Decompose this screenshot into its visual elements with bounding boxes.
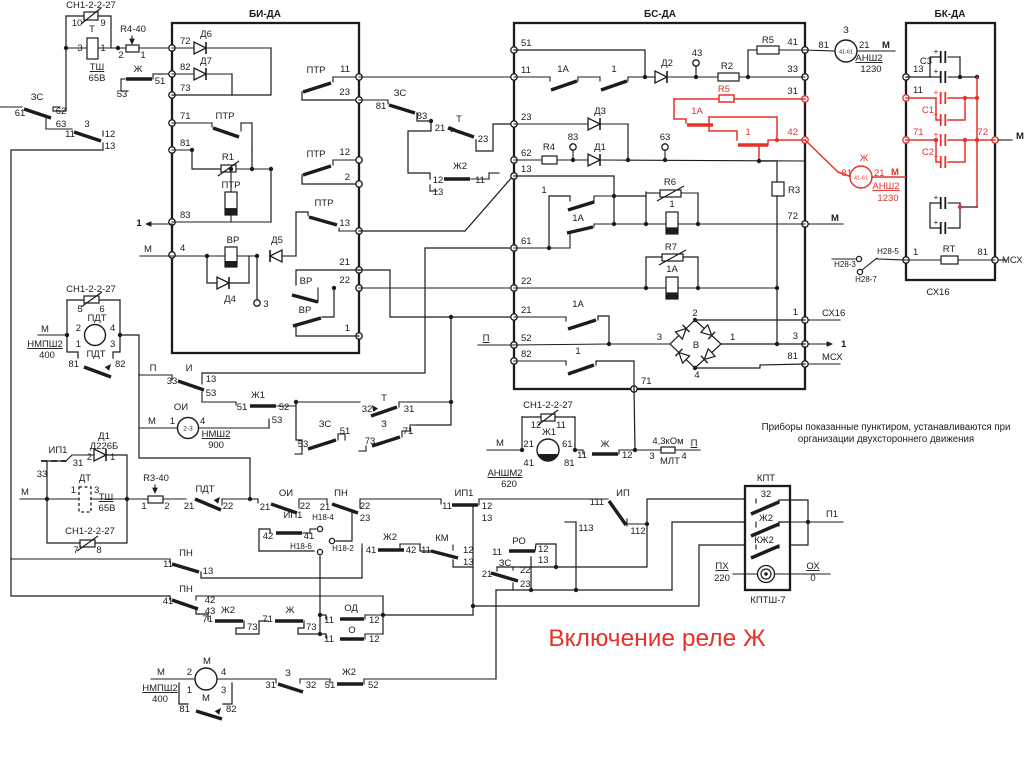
contact PTR (71) [172,111,252,137]
svg-text:23: 23 [520,579,531,590]
node P1 [806,520,810,524]
wire OD right rail [382,596,384,634]
node DT-3 [125,497,129,501]
terminal 43 [692,48,703,77]
svg-text:22: 22 [223,501,234,512]
red node C1r [963,96,967,100]
wire 13 diagonal [359,230,465,232]
contact T 21-23 [435,114,514,151]
svg-text:73: 73 [306,622,317,633]
contact ZS 61-62-63 [0,92,66,130]
lamp PX [714,561,830,584]
varistor CH1-2-2-27 PDT [66,284,120,324]
contact IP1 42-41 [259,510,334,555]
svg-text:53: 53 [298,439,309,450]
svg-text:Д5: Д5 [271,235,283,246]
svg-text:53: 53 [117,89,128,100]
capacitor C3 group [906,47,977,83]
svg-text:Д2: Д2 [661,58,673,69]
node R1-right [269,167,273,171]
svg-text:ТШ: ТШ [99,492,114,503]
svg-text:71: 71 [262,614,273,625]
svg-text:ЗС: ЗС [31,92,44,103]
svg-text:72: 72 [787,211,798,222]
svg-text:М: М [41,324,49,335]
svg-text:3: 3 [649,451,654,462]
svg-text:Н18-2: Н18-2 [332,544,354,553]
contact T 32-31 [362,393,451,416]
diode D1 (62 line) [588,142,805,166]
wire 61 over to I-contact [202,248,514,373]
node Zh1-52 [294,400,298,404]
wire 606 line [473,545,745,606]
terminal BK-13 [903,74,909,80]
wire OD to 473 [383,614,473,616]
note text dashed devices [762,422,1011,445]
svg-text:БИ-ДА: БИ-ДА [249,9,281,20]
svg-text:41-61: 41-61 [854,176,868,182]
svg-text:3: 3 [110,339,115,350]
diode D7 [172,56,232,80]
svg-text:12: 12 [531,420,542,431]
contact IP1 11-12-13 [441,488,608,615]
terminal 13r [356,228,362,234]
svg-text:М: М [1016,131,1024,142]
red wire to relay Zh [805,140,838,172]
resistor R2 [696,61,805,81]
svg-text:R4-40: R4-40 [120,24,146,35]
svg-text:2: 2 [76,323,81,334]
svg-text:11: 11 [475,175,485,186]
svg-text:Д4: Д4 [224,294,236,305]
node Zh1-l [520,448,524,452]
svg-text:61: 61 [521,236,532,247]
terminal BS-51 [511,47,517,53]
node coil-top [229,167,233,171]
svg-text:1А: 1А [572,213,584,224]
wire left rail bottom [11,559,170,596]
svg-text:3: 3 [793,331,798,342]
svg-text:R3-40: R3-40 [143,473,169,484]
svg-text:111: 111 [590,497,604,508]
svg-text:+: + [934,152,939,161]
svg-text:С2: С2 [922,147,934,158]
svg-text:51: 51 [237,402,248,413]
contact Zh 11-12 [575,439,635,461]
contact I 33-13 [139,363,216,402]
contact 3 11-12-13 [46,119,115,152]
svg-text:3: 3 [657,332,662,343]
node Zh-12 [633,448,637,452]
red node C4 [958,205,962,209]
svg-text:4: 4 [694,370,699,381]
svg-text:12: 12 [482,501,493,512]
svg-text:М: М [21,487,29,498]
node VR22 [332,286,336,290]
svg-text:41: 41 [523,458,534,469]
svg-text:2: 2 [164,501,169,512]
varistor CH1-2-2-27 (top) [66,0,116,29]
svg-text:112: 112 [630,526,645,537]
svg-text:33: 33 [787,64,798,75]
svg-text:ПДТ: ПДТ [195,484,214,495]
svg-text:1А: 1А [572,299,584,310]
node 113-590 [574,588,578,592]
svg-text:23: 23 [339,87,350,98]
svg-text:З: З [381,419,387,430]
contact 1A (21 line) [514,299,609,344]
svg-text:Ж1: Ж1 [251,390,265,401]
terminal BK-1 [903,257,909,263]
node T31 [449,400,453,404]
svg-text:З: З [285,668,291,679]
varistor CH1 lower [47,499,127,556]
contact KPT Zh2 [751,513,779,536]
svg-text:32: 32 [306,680,317,691]
svg-text:ПДТ: ПДТ [87,313,106,324]
contact KPT KZh2 [751,535,779,558]
svg-text:11: 11 [324,615,334,626]
wire Zh-51 to terminal 82 [160,73,172,75]
svg-text:СХ16: СХ16 [926,287,949,298]
wire 590 up to KPT Zh2 [672,522,745,590]
red node C1x [975,96,979,100]
terminal 2r [356,181,362,187]
node VR-right [255,254,259,258]
node VR-left [205,254,209,258]
svg-text:52: 52 [521,333,532,344]
svg-text:Н18-4: Н18-4 [312,513,334,522]
svg-text:83: 83 [417,111,428,122]
coil VR [172,235,257,267]
svg-text:72: 72 [977,127,988,138]
svg-text:3: 3 [84,119,89,130]
svg-text:М: М [157,667,165,678]
svg-text:13: 13 [538,555,549,566]
svg-text:65В: 65В [99,503,116,514]
svg-text:71: 71 [202,614,213,625]
wire 22-22 [359,287,514,289]
terminal 4 [169,252,175,258]
wire zs23 line 590 [496,589,672,591]
svg-text:Ж2: Ж2 [221,605,235,616]
svg-text:1А: 1А [557,64,569,75]
svg-text:организации двухстороннего дви: организации двухстороннего движения [798,434,974,445]
svg-text:ОД: ОД [344,603,358,614]
svg-text:113: 113 [578,523,593,534]
svg-text:11: 11 [521,65,531,76]
resistor R7 loop [646,242,698,288]
node 43 [694,75,698,79]
node R1-left [250,167,254,171]
varistor CH1 Zh1 [522,400,575,431]
svg-text:3: 3 [221,685,226,696]
svg-text:Ж: Ж [860,153,869,163]
svg-text:11: 11 [340,64,350,75]
svg-text:53: 53 [206,388,217,399]
node OD-12 [381,613,385,617]
svg-text:1: 1 [541,185,546,196]
contact N28 [832,247,906,284]
svg-text:220: 220 [714,573,730,584]
capacitor C4 group [930,193,977,234]
svg-text:22: 22 [520,565,531,576]
svg-text:63: 63 [660,132,671,143]
node C3x [975,75,979,79]
svg-text:+: + [934,67,939,76]
svg-text:В: В [693,340,699,351]
svg-text:82: 82 [521,349,532,360]
svg-text:2: 2 [692,308,697,319]
contact PTR 11-23 [302,65,359,100]
block BI-DA box [172,9,359,353]
svg-text:11: 11 [324,634,334,645]
contact Z 31-32 [265,668,330,692]
svg-text:13: 13 [206,374,217,385]
wire 71 down to Zh12 [634,389,635,450]
diode D2 [645,58,696,83]
svg-text:31: 31 [787,86,798,97]
terminal BS-23 [511,121,517,127]
wire Zh2-41 down [361,549,363,578]
svg-text:83: 83 [568,132,579,143]
svg-text:11: 11 [556,420,566,431]
terminal 3 below VR [254,256,269,310]
svg-text:1: 1 [345,323,350,334]
svg-text:71: 71 [180,111,191,122]
node 83i [571,158,575,162]
svg-text:АНШ2: АНШ2 [872,181,899,192]
svg-text:СН1-2-2-27: СН1-2-2-27 [65,526,115,537]
terminal BS-3 [802,341,808,347]
svg-text:73: 73 [180,83,191,94]
terminal BS-62 [511,157,517,163]
resistor RT [906,244,995,264]
svg-text:КЖ2: КЖ2 [754,535,774,546]
contact 1 (82 line) [514,346,634,389]
svg-text:52: 52 [368,680,379,691]
svg-text:21: 21 [859,40,870,51]
svg-text:ОИ: ОИ [279,488,293,499]
relay Z (ANSh2 1230) [805,25,895,75]
svg-text:1: 1 [76,339,81,350]
svg-text:Н28-7: Н28-7 [855,275,877,284]
node D2-left [643,75,647,79]
terminal BS-1 [802,317,808,323]
svg-text:1: 1 [140,50,145,61]
svg-text:М: М [148,416,156,427]
svg-text:4: 4 [200,416,205,427]
terminal BS-13 [511,173,517,179]
svg-text:Ж2: Ж2 [383,532,397,543]
svg-text:13: 13 [105,141,116,152]
terminal 63 [660,132,671,160]
node red-tap [757,159,761,163]
svg-text:Приборы показанные пунктиром,: Приборы показанные пунктиром, устанавлив… [762,422,1011,433]
svg-text:81: 81 [564,458,575,469]
terminal 12r [356,157,362,163]
svg-text:Ж: Ж [601,439,610,450]
wire KPT right loops [779,500,843,548]
svg-text:П: П [483,333,490,344]
svg-text:13: 13 [203,566,214,577]
wire 13i down to R6 line [613,196,615,224]
red rail in BK-DA [976,77,978,207]
wire bridge-right to 3 [721,343,805,345]
svg-text:51: 51 [521,38,532,49]
arrow 1 at 3 [808,343,828,345]
resistor R3-40 [141,473,186,512]
bridge rectifier V [657,308,736,381]
node R3-3 [775,342,779,346]
svg-text:ТШ: ТШ [90,62,105,73]
svg-text:ПТР: ПТР [315,198,334,209]
contact VR lower [293,288,359,336]
terminal 22r [356,285,362,291]
wire varistor loop to TSh [66,16,111,48]
relay Zh1 (ANShM2 620) [487,417,575,490]
svg-text:71: 71 [641,376,652,387]
svg-text:З: З [843,25,849,36]
svg-text:R1: R1 [222,152,234,163]
node TSh-1 [116,46,120,50]
svg-text:81: 81 [179,704,190,715]
terminal BS-82 [511,358,517,364]
svg-text:РО: РО [512,536,526,547]
wire P bus to OI contact [250,498,258,500]
svg-text:Включение реле Ж: Включение реле Ж [548,625,766,652]
svg-text:23: 23 [521,112,532,123]
contact PTR 12-2 [302,149,359,184]
wire D6 down to 73 line [232,48,271,95]
svg-text:1А: 1А [691,106,703,117]
svg-text:+: + [934,47,939,56]
wire 11-11 [359,76,514,78]
svg-text:2-3: 2-3 [183,426,193,433]
svg-text:41: 41 [366,545,377,556]
terminal 71 [169,120,175,126]
wire M bus ДТ [20,487,47,499]
wire 81 line [172,149,192,151]
svg-text:72: 72 [180,36,191,47]
terminal 73 [169,92,175,98]
node C3r [958,75,962,79]
svg-text:23: 23 [478,134,489,145]
svg-text:21: 21 [320,502,331,513]
wire P rail down to OI box [139,375,250,499]
wire PDT-4 to rail [120,335,139,375]
svg-text:R7: R7 [665,242,677,253]
svg-text:ИП: ИП [616,488,630,499]
svg-text:ВР: ВР [299,305,312,316]
node T21 [429,119,433,123]
svg-text:ИП1: ИП1 [284,510,303,521]
terminal BS-42 [802,137,808,143]
svg-text:73: 73 [247,622,258,633]
node 81a [190,148,194,152]
resistor 4.3kOm MLT [635,436,700,467]
node R7-l [644,286,648,290]
svg-text:1: 1 [913,247,918,258]
svg-text:2: 2 [87,452,92,463]
svg-text:Д6: Д6 [200,29,212,40]
terminal BS-81 [802,361,808,367]
svg-text:81: 81 [977,247,988,258]
svg-text:П: П [150,363,157,374]
node bridge-top [693,318,697,322]
wire 51 loop [514,50,645,77]
svg-text:1: 1 [611,64,616,75]
wire D5 up to PTR13 [296,212,308,256]
red contact 1A [674,99,777,140]
svg-text:Н18-6: Н18-6 [290,542,312,551]
wire bridge-top to 1 [695,319,805,321]
wire 52 to T32 [296,401,360,403]
terminal BS-33 [802,74,808,80]
svg-text:13: 13 [521,164,532,175]
terminal BS-41 [802,47,808,53]
svg-text:Ж1: Ж1 [542,427,556,438]
contact OI 21-22 [258,488,327,513]
svg-text:1: 1 [841,339,847,350]
svg-text:11: 11 [442,501,452,512]
svg-text:11: 11 [65,129,75,140]
contact PN 11-13 (P line) [163,548,362,578]
svg-text:ПТР: ПТР [216,111,235,122]
svg-text:3: 3 [263,299,268,310]
svg-text:М: М [882,40,890,51]
wire 21mid down [450,317,452,402]
svg-text:ПТР: ПТР [307,149,326,160]
svg-text:М: М [496,438,504,449]
svg-text:ДТ: ДТ [79,473,91,484]
svg-text:+: + [934,130,939,139]
node 63 [663,158,667,162]
svg-text:81: 81 [376,101,387,112]
wire T31 down to Z71 loop [417,402,451,425]
svg-text:КПТ: КПТ [757,473,775,484]
svg-text:61: 61 [562,439,573,450]
svg-text:42: 42 [406,545,417,556]
wire 21 down to BS-DA 21 [359,270,514,317]
block BS-DA box [514,9,805,389]
resistor R3 [759,161,800,344]
svg-text:13: 13 [433,187,444,198]
svg-text:R2: R2 [721,61,733,72]
svg-text:ПТР: ПТР [307,65,326,76]
contact O 11-12 [320,625,383,645]
contact ZS 53-51 [295,402,350,454]
svg-text:R3: R3 [788,185,800,196]
block KPT box [745,473,790,606]
node RO-13 [529,588,533,592]
node R6-line-l [612,222,616,226]
relay Zh red (ANSh2 1230) [838,153,905,204]
contact PTR (13) [308,198,359,231]
svg-text:33: 33 [37,469,48,480]
contact Zh 51-53 [117,64,166,100]
contact 1 (R6) [541,185,614,248]
svg-text:СН1-2-2-27: СН1-2-2-27 [66,284,116,295]
svg-text:1: 1 [170,416,175,427]
svg-text:ИП1: ИП1 [49,445,68,456]
wire PTR to 81 node [251,123,253,150]
diode D1 D226B [66,431,127,499]
svg-text:42: 42 [787,127,798,138]
terminal BS-72 [802,221,808,227]
contact OD 11-12 [320,603,383,626]
svg-text:1: 1 [669,199,674,210]
